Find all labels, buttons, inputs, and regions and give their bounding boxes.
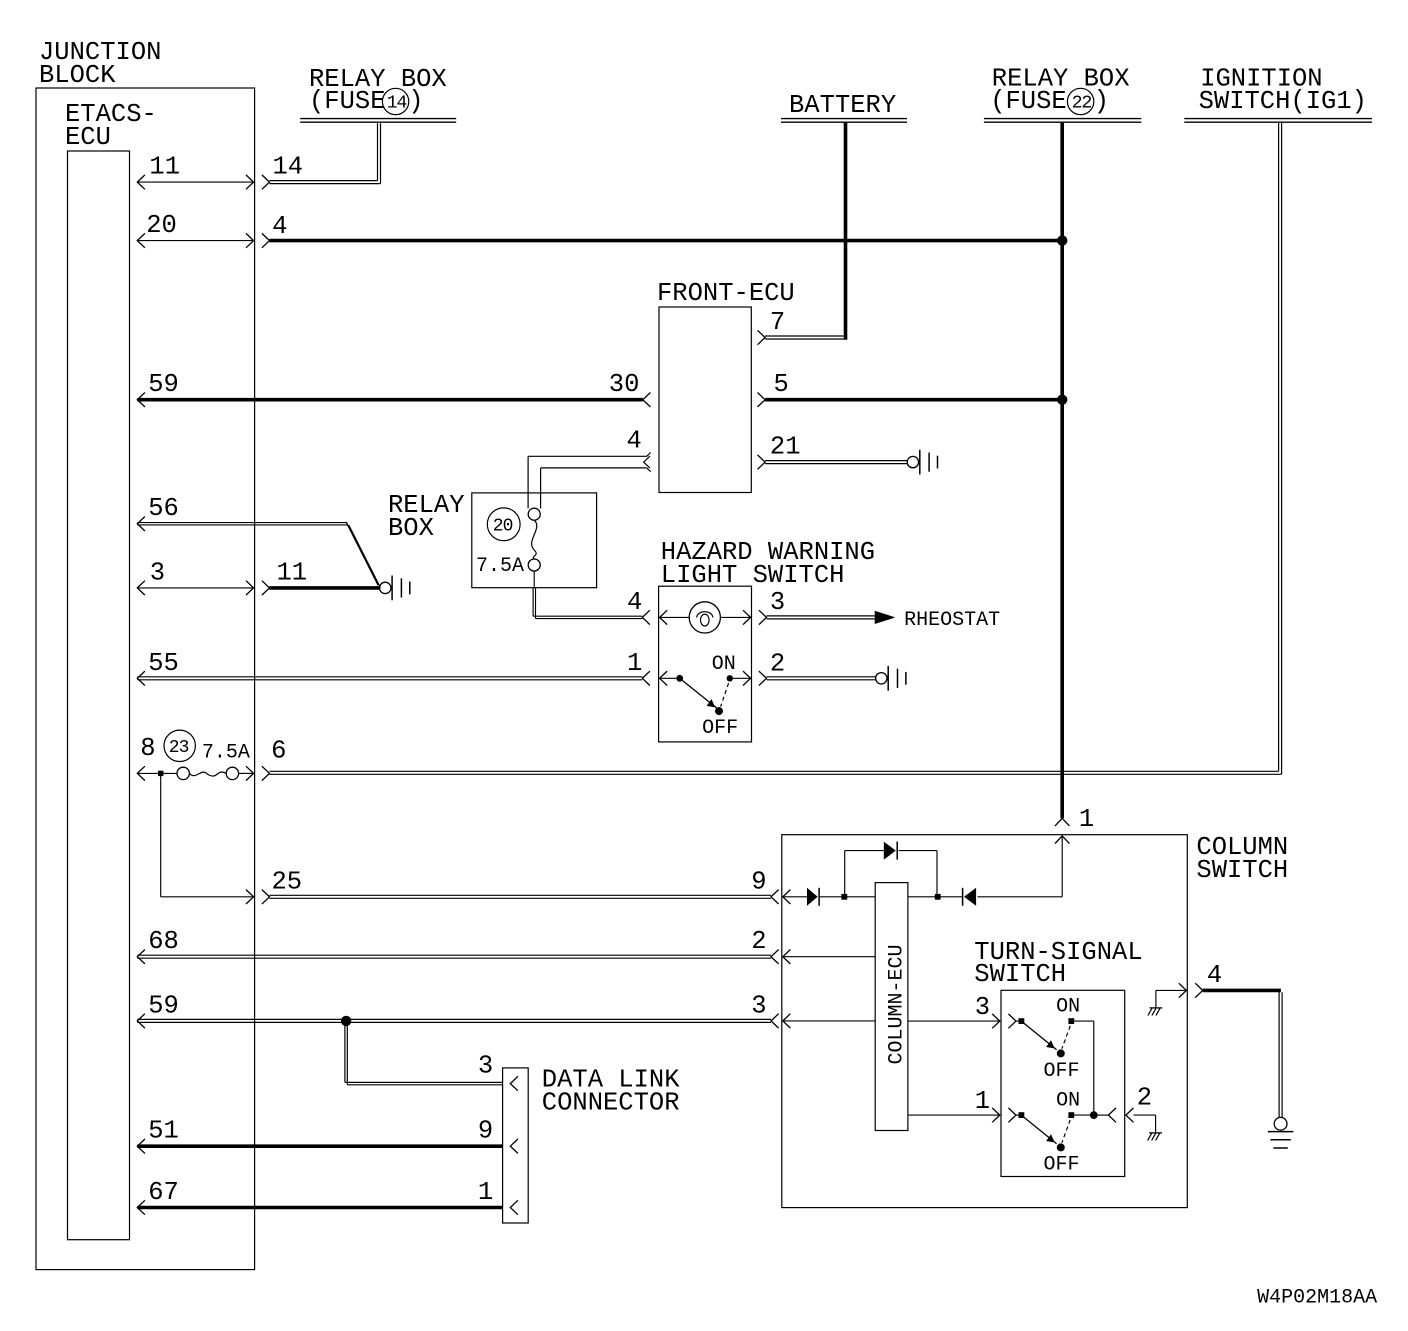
FRONT-ECU outline [659, 307, 751, 493]
data link connector outline [503, 1068, 529, 1223]
svg-text:ON: ON [1056, 1090, 1080, 1113]
node wire5 / fuse22 junction [1057, 395, 1067, 405]
column pin 3 connector [771, 1014, 790, 1028]
battery bus bar [781, 119, 907, 123]
boundary arrow row 6 [262, 766, 270, 780]
svg-text:SWITCH(IG1): SWITCH(IG1) [1199, 87, 1367, 116]
wire row 25 inside junction block [161, 890, 254, 904]
svg-text:2: 2 [751, 927, 766, 956]
ground G4 (column pin 4 internal) [1148, 1008, 1162, 1016]
wire 4 thick to earth ground [1203, 990, 1282, 1117]
ground G5 (TS pin 2) [1148, 1133, 1162, 1141]
svg-text:(FUSE: (FUSE [309, 87, 386, 116]
svg-text:BOX: BOX [388, 514, 434, 543]
ETACS-ECU label [65, 100, 157, 152]
relay box fuse 14 label [309, 65, 447, 116]
diode D1 (pin 9 line) [807, 888, 819, 906]
junction block label [39, 38, 161, 90]
wire 59 thick ETACS to FRONT-ECU pin 30 [137, 393, 650, 407]
wire 14 to relay box fuse 14 [270, 123, 381, 183]
node junction wire59 / DLC branch [341, 1016, 351, 1026]
diode D2 (pin1 to node B) [963, 888, 977, 906]
wire 56 ETACS [137, 517, 380, 588]
column pin 1 connector [1055, 818, 1069, 843]
TS pin 1 connector [992, 1108, 1021, 1122]
wire branch down from node 8 [160, 776, 162, 897]
svg-text:SWITCH: SWITCH [974, 960, 1066, 989]
wire node A to COLUMN-ECU [844, 896, 875, 898]
wire column pin 3 to COLUMN-ECU [783, 1020, 875, 1022]
svg-text:(FUSE: (FUSE [990, 87, 1067, 116]
arrow to RHEOSTAT [875, 612, 893, 624]
svg-text:4: 4 [627, 427, 642, 456]
ETACS-ECU connector outline [68, 151, 130, 1240]
hazard pin 1 connector [642, 671, 667, 685]
svg-text:14: 14 [273, 153, 304, 182]
fuse 23 circle label [164, 730, 195, 761]
wire 11 thick to ground [270, 586, 380, 590]
svg-text:6: 6 [271, 737, 286, 766]
wire 51 thick to DLC pin 9 [137, 1139, 502, 1153]
wire pin1 inside column box [978, 836, 1063, 897]
svg-text:22: 22 [1072, 94, 1092, 114]
svg-text:1: 1 [627, 649, 642, 678]
wire FRONT-ECU pin 21 to ground [758, 455, 908, 469]
svg-text:3: 3 [770, 588, 785, 617]
node junction row8 branch [158, 771, 163, 776]
wire row 3 inside junction block [137, 581, 253, 595]
relay box 20 label [388, 491, 465, 543]
svg-text:ON: ON [712, 653, 736, 676]
hazard pin 4 connector [642, 610, 667, 624]
wire bypass node A up and over [845, 851, 937, 897]
svg-text:14: 14 [387, 94, 407, 114]
wire column pin 2 to COLUMN-ECU [783, 956, 875, 958]
wire 25 to column switch pin 9 [270, 895, 772, 898]
wire TS ON contact to pin2 node [1071, 1021, 1094, 1115]
hazard switch SW1 contacts [660, 675, 750, 682]
node B [935, 894, 941, 900]
data link connector label [542, 1065, 680, 1117]
DLC pin 1 chevron [510, 1200, 518, 1214]
svg-text:7.5A: 7.5A [476, 555, 524, 578]
svg-text:OFF: OFF [1044, 1154, 1080, 1177]
column pin 9 connector [771, 890, 790, 904]
svg-text:2: 2 [1137, 1084, 1152, 1113]
wire battery vertical [844, 123, 848, 340]
boundary arrow row 4 [262, 233, 270, 247]
svg-text:67: 67 [148, 1178, 179, 1207]
relay box 20 outline [472, 493, 597, 588]
svg-text:55: 55 [148, 649, 179, 678]
wire 6 to ignition switch [270, 771, 1282, 774]
svg-text:COLUMN-ECU: COLUMN-ECU [886, 944, 909, 1064]
svg-text:1: 1 [975, 1087, 990, 1116]
svg-text:4: 4 [627, 588, 642, 617]
svg-text:25: 25 [272, 867, 303, 896]
fuse F20 element [528, 508, 540, 571]
fuse F23 element [177, 767, 239, 779]
DLC pin 3 chevron [510, 1076, 518, 1090]
svg-text:59: 59 [148, 370, 179, 399]
svg-text:FRONT-ECU: FRONT-ECU [657, 279, 795, 308]
relay box fuse 22 bus bar [984, 119, 1141, 123]
svg-text:20: 20 [146, 211, 177, 240]
svg-text:OFF: OFF [1044, 1060, 1080, 1083]
node A [841, 894, 847, 900]
svg-text:51: 51 [148, 1117, 179, 1146]
svg-text:23: 23 [169, 738, 189, 758]
column pin 2 connector [771, 950, 790, 964]
relay box fuse 22 label [990, 65, 1129, 117]
column switch label [1196, 833, 1288, 885]
svg-text:RHEOSTAT: RHEOSTAT [904, 609, 1000, 632]
svg-text:BATTERY: BATTERY [789, 91, 896, 120]
wire COLUMN-ECU to TS pin 3 [908, 1020, 1000, 1022]
svg-text:59: 59 [148, 991, 179, 1020]
boundary arrow row 25 [262, 890, 270, 904]
wire FRONT-ECU pin 5 thick to fuse22 line [758, 393, 1063, 407]
svg-text:56: 56 [148, 494, 179, 523]
turn-signal switch SW2a contacts [1019, 1018, 1075, 1024]
ground G3 (hazard pin 2) [876, 666, 906, 691]
svg-text:3: 3 [975, 993, 990, 1022]
lamp L1 (hazard indicator) [689, 602, 720, 633]
svg-text:1: 1 [1079, 805, 1094, 834]
wire lamp row inside hazard box [660, 616, 750, 618]
svg-text:30: 30 [609, 370, 640, 399]
fuse 20 circle label [487, 508, 520, 541]
boundary arrow row 14 [262, 175, 270, 189]
wire pin 9 to diode D1 [783, 896, 807, 898]
svg-text:): ) [1094, 87, 1109, 116]
wire diode D1 to node A [819, 896, 844, 898]
wire row 8 inside junction block [137, 766, 253, 780]
hazard switch SW1 lever [682, 680, 729, 715]
ignition switch IG1 label [1199, 65, 1367, 117]
svg-text:1: 1 [478, 1178, 493, 1207]
wire hazard pin2 to ground [767, 677, 876, 680]
wire COLUMN-ECU to TS pin 1 [908, 1114, 1000, 1116]
svg-text:): ) [408, 87, 423, 116]
COLUMN-ECU outline [875, 883, 908, 1131]
node wire4 / fuse22 junction [1057, 235, 1067, 245]
svg-text:3: 3 [150, 558, 165, 587]
ignition switch bus bar [1184, 119, 1372, 123]
turn-signal switch SW2a lever [1024, 1023, 1071, 1057]
svg-text:OFF: OFF [702, 717, 738, 740]
wire FRONT-ECU pin 7 to battery [758, 330, 848, 344]
wire diode D2 to node B [938, 896, 963, 898]
svg-text:ON: ON [1056, 996, 1080, 1019]
hazard switch outline [659, 586, 752, 742]
wire row 20 inside junction block [137, 233, 253, 247]
wire fuse 22 vertical [1060, 123, 1064, 819]
svg-text:BLOCK: BLOCK [39, 61, 116, 90]
svg-text:11: 11 [277, 558, 308, 587]
wire TS pin 2 to ground [1094, 1108, 1156, 1133]
wire node B to COLUMN-ECU [908, 896, 938, 898]
wire 4 thick feed to fuse 22 line [270, 239, 1063, 243]
TS pin 3 connector [992, 1014, 1021, 1028]
svg-text:CONNECTOR: CONNECTOR [542, 1089, 680, 1118]
relay box fuse 14 bus bar [300, 119, 456, 123]
ground G6 (earth, column pin 4) [1268, 1117, 1294, 1148]
column pin 4 connector [1179, 983, 1203, 997]
wire row 11 inside junction block [137, 175, 253, 189]
wire 67 thick to DLC pin 1 [137, 1200, 502, 1214]
svg-text:20: 20 [493, 517, 513, 537]
svg-text:SWITCH: SWITCH [1196, 856, 1288, 885]
wire ignition IG1 vertical [1279, 123, 1282, 775]
svg-text:7: 7 [770, 308, 785, 337]
svg-text:68: 68 [148, 927, 179, 956]
node TS pin2 junction [1090, 1111, 1098, 1119]
svg-text:9: 9 [478, 1117, 493, 1146]
wire 59 ETACS to column pin 3 [137, 1014, 771, 1028]
junction block outline [36, 88, 255, 1270]
svg-text:5: 5 [774, 370, 789, 399]
wire 55 ETACS to hazard pin 1 [137, 671, 642, 685]
wire hazard pin3 to rheostat [767, 616, 876, 619]
DLC pin 9 chevron [510, 1139, 518, 1153]
hazard pin 2 connector [743, 671, 767, 685]
svg-text:21: 21 [770, 433, 801, 462]
diode D3 (bypass) [884, 842, 897, 860]
turn-signal switch SW2b lever [1024, 1117, 1071, 1151]
svg-text:2: 2 [770, 649, 785, 678]
svg-text:7.5A: 7.5A [202, 742, 250, 765]
column switch outline [782, 835, 1188, 1208]
hazard warning light switch label [661, 538, 875, 590]
wire column pin 4 to chassis ground [1156, 990, 1187, 1008]
boundary arrow row 11 [262, 581, 270, 595]
svg-text:3: 3 [478, 1052, 493, 1081]
svg-text:W4P02M18AA: W4P02M18AA [1257, 1287, 1377, 1310]
svg-text:4: 4 [272, 212, 287, 241]
ground G2 (pin 21) [907, 450, 937, 475]
svg-text:3: 3 [751, 991, 766, 1020]
hazard pin 3 connector [743, 610, 767, 624]
svg-text:4: 4 [1207, 961, 1222, 990]
wire branch to data link connector pin 3 [345, 1021, 503, 1085]
svg-text:ECU: ECU [65, 123, 111, 152]
turn-signal switch SW2b contacts [1019, 1112, 1094, 1118]
wire fuse20 output down [533, 571, 642, 619]
wire fuse20 to FRONT-ECU pin 4 (pair) [528, 453, 651, 509]
turn-signal switch label [974, 938, 1142, 989]
wire 68 ETACS to column pin 2 [137, 950, 771, 964]
ground G1 (wire 11 / 56) [380, 576, 410, 601]
svg-text:9: 9 [751, 867, 766, 896]
svg-text:11: 11 [149, 153, 180, 182]
turn-signal switch outline [1001, 990, 1125, 1176]
svg-text:8: 8 [140, 734, 155, 763]
